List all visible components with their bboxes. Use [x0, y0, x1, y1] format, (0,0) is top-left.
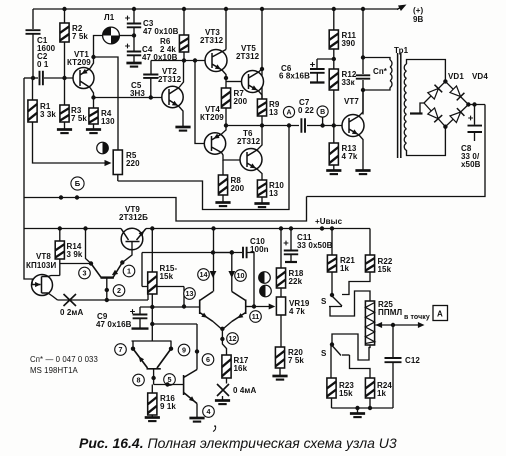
wire C10 right down: [247, 253, 254, 307]
wire R17 bottom stem: [226, 378, 228, 384]
transistor VT9 2Т312Б: [121, 228, 143, 250]
pin 5: [164, 374, 176, 386]
pin 11: [250, 311, 262, 323]
VT5 internals: [249, 72, 259, 91]
wire C8 top stem: [474, 105, 476, 125]
bridge left terminal bar: [410, 112, 423, 114]
VT3 emitter arrow: [215, 64, 221, 69]
wire R25 bottom to lower switch: [332, 334, 370, 360]
svg-text:9 1k: 9 1k: [160, 402, 176, 411]
wire left column down: [23, 78, 25, 198]
svg-text:Б: Б: [75, 179, 81, 188]
junction pin11 node: [252, 304, 256, 308]
wire right rail down: [307, 105, 486, 197]
svg-text:6 8x16В: 6 8x16В: [279, 72, 310, 81]
svg-text:2Т312: 2Т312: [158, 75, 182, 84]
node box А: [433, 306, 448, 321]
svg-text:S: S: [321, 297, 327, 306]
resistor R13 4.7k: [329, 143, 358, 165]
VT9 internals: [121, 229, 146, 242]
wire base wire y307: [140, 306, 200, 308]
junction tank bottom: [361, 88, 365, 92]
svg-text:7 5k: 7 5k: [72, 32, 88, 41]
junction pnp/R16: [151, 376, 155, 380]
svg-text:15k: 15k: [378, 265, 392, 274]
transistor VT8 КП103И: [32, 275, 53, 296]
wire R18-VR19 stem: [280, 288, 282, 297]
junction rail +Uвыс tap: [320, 226, 324, 230]
trimmer mark upper: [259, 272, 271, 284]
wire R8 bottom stem: [222, 195, 224, 202]
wire R21 to pivot: [331, 272, 333, 294]
transistor VT4 КТ209: [204, 133, 225, 154]
junction VT5 collector: [260, 67, 264, 71]
resistor R23 15k: [327, 378, 355, 398]
VT2 emitter arrow: [172, 101, 178, 106]
switch pivot lower: [330, 342, 334, 346]
svg-text:В: В: [320, 109, 325, 116]
wire secondary top to bridge: [407, 60, 446, 82]
junction rail R6: [182, 7, 186, 11]
capacitor C2: [40, 71, 43, 85]
svg-text:0 22: 0 22: [298, 106, 314, 115]
wire R2 bottom to base node: [64, 42, 66, 78]
potentiometer VR19 4.7k: [276, 297, 309, 316]
transistor VT1 КТ209: [73, 68, 94, 89]
wire bottom +U rail right: [146, 228, 370, 230]
potentiometer R5 220: [113, 150, 140, 175]
junction tank top: [361, 55, 365, 59]
wire rail corner to R22: [369, 229, 371, 256]
wire pair top link: [213, 252, 232, 254]
junction VT1 base node: [62, 76, 66, 80]
svg-text:14: 14: [200, 270, 208, 279]
pin 4: [203, 406, 215, 418]
capacitor Сп*: [356, 75, 370, 78]
ground C9: [132, 327, 149, 329]
wire R9 bottom stem: [261, 116, 263, 126]
svg-text:2: 2: [117, 286, 121, 295]
wire lamp to VT1 emitter: [94, 36, 103, 58]
junction mirror base mid: [105, 288, 109, 292]
current arrow pin14: [210, 271, 217, 278]
transistor pins7-9 (internal PNP): [133, 349, 171, 369]
wire R4 bottom stem: [93, 124, 95, 129]
svg-text:2Т312: 2Т312: [236, 52, 260, 61]
wire VT7 collector up: [359, 90, 363, 116]
svg-text:4 7k: 4 7k: [342, 152, 358, 161]
svg-text:2Т312: 2Т312: [237, 137, 261, 146]
svg-text:220: 220: [126, 159, 140, 168]
capacitor C7 0.22: [301, 118, 305, 132]
svg-text:390: 390: [342, 39, 356, 48]
junction rail C11: [289, 226, 293, 230]
svg-text:22k: 22k: [289, 277, 303, 286]
wire R3 top stem: [64, 78, 66, 105]
svg-text:(+): (+): [413, 6, 424, 15]
svg-text:7 5k: 7 5k: [71, 114, 87, 123]
ground bottom bus: [350, 414, 365, 418]
wire tank column top: [362, 9, 364, 74]
junction mirror emitter: [120, 260, 124, 264]
wire R10 bottom stem: [261, 197, 263, 203]
ground R8: [215, 203, 230, 207]
junction C5/VT2 base wire: [149, 95, 153, 99]
resistor R9 13: [257, 99, 279, 117]
left emitter arrow: [201, 313, 207, 318]
transistor T6 2Т312: [240, 149, 262, 171]
wire C3 top stem: [133, 9, 135, 24]
junction rail tank: [361, 7, 365, 11]
junction tail mid: [220, 337, 224, 341]
wire C2 to VT1 base: [44, 77, 73, 79]
wire C1 bottom stem: [32, 34, 34, 78]
junction bridge right vertex: [466, 102, 470, 106]
wire ground stem: [357, 408, 359, 413]
wire pnp base down: [153, 369, 155, 385]
ground R16: [145, 418, 160, 422]
wire R23 bottom stem: [331, 398, 333, 408]
svg-text:4: 4: [207, 407, 211, 416]
junction y252/x231: [230, 250, 234, 254]
pnp emitter arrow: [139, 356, 144, 362]
wire y286 link: [142, 286, 184, 288]
junction ground bus: [355, 406, 359, 410]
junction R15/base wire: [150, 305, 154, 309]
pin 3: [79, 267, 91, 279]
pin 8: [133, 374, 145, 386]
junction rail R15: [150, 226, 154, 230]
switch pivot upper: [330, 293, 334, 297]
wire R2 top stem: [64, 9, 66, 23]
diode VD4 (bottom-right arm): [450, 108, 464, 122]
wire x152 column: [151, 307, 153, 341]
junction R12/R13/VT7 base: [332, 123, 336, 127]
wire long feed to VT4 base: [195, 61, 204, 144]
ground VT2 emitter: [175, 127, 190, 131]
wire primary bottom: [363, 88, 390, 91]
svg-text:1: 1: [127, 267, 131, 276]
svg-text:13: 13: [269, 189, 279, 198]
resistor R6 2.4k: [160, 35, 189, 54]
transistor VT3 2Т312: [205, 50, 227, 72]
wire R13 top stem: [333, 126, 335, 144]
wire lamp to C3 node: [119, 35, 134, 37]
resistor R1 3.3k: [28, 100, 57, 122]
wire R11-R12 stem: [333, 49, 335, 69]
wire tail down: [222, 329, 226, 355]
junction x152/y324: [150, 322, 154, 326]
wire R4 top stem: [93, 98, 95, 109]
wire C9 top stem: [139, 307, 141, 314]
junction R9/T6/wire125: [260, 123, 264, 127]
wire R20 bottom stem: [279, 368, 281, 376]
relay winding R25 ППМЛ: [365, 300, 402, 345]
resistor R4 130: [89, 108, 115, 126]
wire R12 bottom stem: [333, 90, 335, 126]
wire tank column bottom: [362, 80, 364, 115]
wire primary top: [363, 58, 390, 61]
svg-text:VD1: VD1: [448, 72, 464, 81]
pin 7: [115, 344, 127, 356]
junction C1/C2 node: [31, 76, 35, 80]
wire VT8 source to current point: [48, 293, 58, 300]
wire T6 collector up: [257, 126, 262, 151]
wire C6 top stem: [316, 59, 318, 69]
wire bottom bus: [332, 407, 394, 409]
junction rail C3: [132, 7, 136, 11]
svg-text:Сп* — 0 047 0 033: Сп* — 0 047 0 033: [30, 355, 98, 364]
wire VT9 base down: [122, 242, 132, 263]
transistor VT5 2Т312: [242, 71, 264, 93]
switch blade upper: [333, 297, 343, 307]
trimmer mark: [97, 142, 109, 154]
transformer Тр1 core: [398, 53, 401, 158]
ground R20: [272, 376, 287, 380]
wire C5 bottom stem: [150, 78, 152, 98]
wire R5 bottom stem: [117, 175, 119, 182]
wire VT2 collector up: [179, 61, 184, 88]
ground C6: [310, 81, 325, 83]
VT1 internals: [80, 69, 90, 88]
node Б: [71, 177, 84, 190]
wire source bus y300: [58, 299, 149, 301]
wire R16 bottom stem: [151, 415, 153, 417]
wire pnp right stub: [170, 341, 172, 349]
wire collector node to VT2 base: [94, 97, 163, 99]
wire y384 link: [154, 384, 184, 386]
wire return loop: [24, 197, 307, 222]
junction rail VT3: [224, 7, 228, 11]
junction R24 bus: [368, 406, 372, 410]
right emitter arrow: [237, 313, 243, 318]
svg-text:47 0x10В: 47 0x10В: [143, 27, 179, 36]
wire C12 bottom stem: [392, 362, 394, 408]
transformer Тр1 secondary winding: [404, 64, 406, 150]
VT7 emitter arrow: [352, 129, 358, 134]
junction rail R18: [279, 226, 283, 230]
capacitor C5 3Н3: [143, 75, 158, 78]
arrow R5 wiper: [105, 160, 112, 166]
current arrow pin10: [228, 271, 235, 278]
junction rail R2: [62, 7, 66, 11]
diode VD3 (left-bottom arm): [428, 108, 442, 122]
resistor R16 9.1k: [148, 393, 177, 415]
wire input node horizontal: [24, 77, 38, 79]
wire x197 column: [196, 324, 198, 370]
wire R7 bottom stem: [225, 108, 227, 126]
wire R16 top stem: [151, 385, 153, 394]
svg-text:200: 200: [231, 184, 245, 193]
junction VT1 collector node: [91, 95, 95, 99]
wire left collector up: [213, 229, 215, 292]
junction pnp right: [169, 347, 173, 351]
svg-text:15k: 15k: [160, 272, 174, 281]
svg-text:2Т312Б: 2Т312Б: [119, 213, 148, 222]
resistor R10 13: [257, 180, 284, 198]
wire arrow stem: [397, 6, 403, 10]
wire R24 bottom stem: [369, 398, 371, 408]
current test point X 0.2мА: [64, 294, 77, 306]
VT1 emitter arrow: [82, 69, 88, 74]
VT7 internals: [349, 116, 359, 135]
junction rail R14: [58, 226, 62, 230]
capacitor C8 33.0x50В: [468, 126, 483, 132]
wire R22 step: [342, 272, 370, 295]
capacitor C9 47.0x16В: [130, 309, 147, 318]
wire mirror base down: [106, 278, 108, 300]
wire node B stub: [322, 117, 324, 125]
ground R13: [326, 171, 341, 175]
wire VT4 emitter up: [222, 126, 227, 135]
ground R17: [215, 401, 230, 405]
pin 13: [184, 288, 196, 300]
npn4 emitter arrow: [189, 396, 195, 402]
wire R6 bottom stem: [183, 52, 185, 61]
wire R15 bottom stem: [151, 294, 153, 307]
transistor VT7: [342, 115, 364, 137]
wire R13 bottom stem: [333, 165, 335, 170]
wire VT8 gate from left column: [24, 229, 33, 285]
wire R21 top stem: [331, 229, 333, 256]
svg-text:А: А: [437, 310, 443, 319]
wire left column to lower rail: [23, 198, 25, 229]
transformer Тр1 primary winding: [390, 60, 392, 88]
VT4 internals: [212, 134, 222, 153]
wire y252 link: [142, 252, 242, 254]
arrow to point A: [418, 322, 425, 328]
wire right collector up: [231, 253, 233, 292]
svg-text:C12: C12: [405, 356, 420, 365]
pin 1: [123, 265, 135, 277]
VT5 emitter arrow: [251, 85, 257, 90]
VT9 emitter arrow: [139, 231, 145, 237]
wire secondary bottom to bridge: [407, 127, 446, 156]
VT3 internals: [212, 50, 226, 71]
svg-text:Рис. 16.4. Полная электрическа: Рис. 16.4. Полная электрическая схема уз…: [79, 435, 397, 451]
junction pnp left: [131, 347, 135, 351]
wire to VR19 wiper: [254, 306, 271, 308]
wire VT3 emitter down: [222, 70, 226, 88]
mirror emitter arrow: [112, 270, 118, 276]
resistor R2 7.5k: [60, 23, 89, 42]
svg-text:8: 8: [137, 376, 141, 385]
svg-text:3: 3: [83, 269, 87, 278]
svg-text:9В: 9В: [413, 15, 424, 24]
ground R10: [254, 204, 269, 208]
wire R15 top stem: [151, 229, 153, 273]
resistor R3 7.5k: [60, 105, 88, 123]
switch lower tick: [342, 354, 350, 356]
wire R3 bottom stem: [64, 122, 66, 129]
wire npn4 emitter stem: [196, 404, 198, 418]
svg-text:0 4мА: 0 4мА: [233, 386, 256, 395]
wire right base out: [246, 306, 254, 308]
node A: [283, 106, 294, 117]
svg-text:15k: 15k: [339, 389, 353, 398]
wire C8 bottom stem: [474, 132, 476, 141]
svg-text:Тр1: Тр1: [394, 46, 409, 55]
wire C6 bottom stem: [316, 73, 318, 82]
wire mirror collector up: [86, 229, 92, 264]
junction x197 collector: [195, 349, 199, 353]
junction VT1 emitter/lamp: [91, 55, 95, 59]
svg-text:x50В: x50В: [461, 160, 481, 169]
ground R3: [57, 130, 72, 134]
wire y286 down to base node: [183, 287, 185, 307]
resistor R18 22k: [276, 268, 304, 288]
wire base bus y60: [151, 60, 206, 62]
svg-text:+Uвыс: +Uвыс: [315, 217, 343, 226]
T6 emitter arrow: [250, 163, 256, 168]
junction base node tap: [182, 304, 186, 308]
resistor R20 7.5k: [275, 347, 304, 368]
capacitor C4 47.0x10В: [125, 44, 178, 62]
wire VT4 to T6 base: [222, 153, 240, 161]
capacitor C12: [385, 358, 402, 362]
wire C11 bottom stem: [290, 254, 292, 261]
junction rail pin14 column: [211, 226, 215, 230]
svg-text:КТ209: КТ209: [200, 113, 224, 122]
svg-text:11: 11: [252, 312, 260, 321]
resistor R7 200: [221, 88, 247, 108]
VT2 internals: [169, 88, 179, 107]
wire R1 bottom to R5 arrow: [33, 122, 106, 163]
wire VT5 base: [226, 81, 242, 83]
svg-text:0 1: 0 1: [37, 60, 49, 69]
junction mirror collector: [89, 261, 93, 265]
VT4 emitter arrow: [214, 134, 220, 139]
wire C10 net down: [141, 253, 143, 287]
junction y384 mid: [165, 382, 169, 386]
resistor R17 16k: [222, 355, 249, 378]
wire C9 bottom stem: [139, 318, 141, 327]
ground C4: [126, 63, 141, 67]
resistor R12 33к: [329, 69, 357, 90]
svg-text:1k: 1k: [377, 389, 387, 398]
junction C8 tap: [472, 102, 476, 106]
diode VD1 (left-top arm): [428, 85, 442, 99]
junction node A tap: [287, 123, 291, 127]
wire VT1 emitter up: [90, 57, 94, 69]
ground R4: [86, 130, 101, 134]
wire VT3 collector stem: [225, 9, 227, 50]
wire C5 top stem: [150, 61, 152, 75]
junction C10 left: [230, 250, 234, 254]
wire y324 branch: [152, 323, 197, 325]
junction rail R11: [332, 7, 336, 11]
wire +9V top rail: [33, 8, 398, 10]
wire R11 top stem: [333, 9, 335, 30]
pin 9: [178, 344, 190, 356]
junction rail mirror collector: [83, 226, 87, 230]
svg-text:9: 9: [182, 346, 186, 355]
svg-text:3Н3: 3Н3: [130, 89, 145, 98]
wire R8 top stem: [222, 160, 224, 175]
wire bottom +U rail left: [24, 228, 121, 230]
svg-text:А: А: [286, 110, 291, 117]
capacitor C11 33.0x50В: [284, 241, 299, 255]
ground VT7: [355, 171, 370, 175]
capacitor C10 100n: [243, 247, 247, 259]
wire pnp left stub: [132, 341, 134, 349]
svg-text:в точку: в точку: [404, 314, 430, 321]
trimmer mark lower: [260, 285, 272, 297]
svg-text:130: 130: [101, 117, 115, 126]
capacitor C1: [26, 30, 41, 34]
junction return wire a: [59, 195, 63, 199]
wire wiper to point A: [376, 324, 420, 326]
